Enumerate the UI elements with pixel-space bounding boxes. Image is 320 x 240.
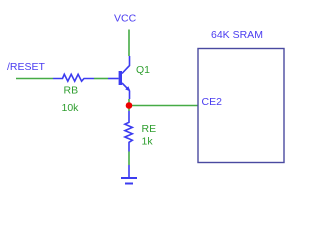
svg-text:64K SRAM: 64K SRAM — [211, 29, 263, 41]
svg-text:CE2: CE2 — [202, 96, 223, 108]
svg-text:RB: RB — [64, 85, 79, 97]
svg-text:10k: 10k — [62, 102, 80, 114]
svg-text:Q1: Q1 — [136, 64, 150, 76]
svg-text:VCC: VCC — [114, 13, 137, 25]
svg-text:/RESET: /RESET — [7, 61, 46, 73]
svg-text:RE: RE — [142, 123, 157, 135]
svg-text:1k: 1k — [142, 136, 154, 148]
